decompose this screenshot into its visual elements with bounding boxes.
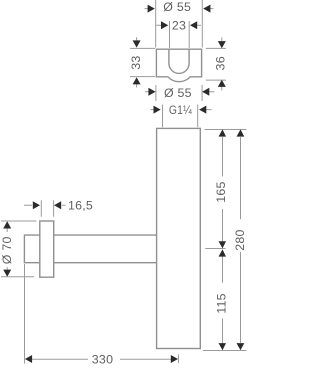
svg-text:115: 115 xyxy=(214,293,228,314)
svg-text:165: 165 xyxy=(214,181,228,202)
svg-text:330: 330 xyxy=(92,353,113,367)
svg-text:23: 23 xyxy=(172,18,186,32)
svg-text:Ø 70: Ø 70 xyxy=(0,236,14,264)
svg-text:33: 33 xyxy=(129,55,143,69)
svg-text:Ø 55: Ø 55 xyxy=(164,86,192,100)
svg-text:Ø 55: Ø 55 xyxy=(163,0,191,14)
svg-text:G1¼: G1¼ xyxy=(169,103,192,117)
svg-text:280: 280 xyxy=(233,229,247,250)
svg-text:36: 36 xyxy=(214,56,228,70)
svg-text:16,5: 16,5 xyxy=(68,199,93,213)
